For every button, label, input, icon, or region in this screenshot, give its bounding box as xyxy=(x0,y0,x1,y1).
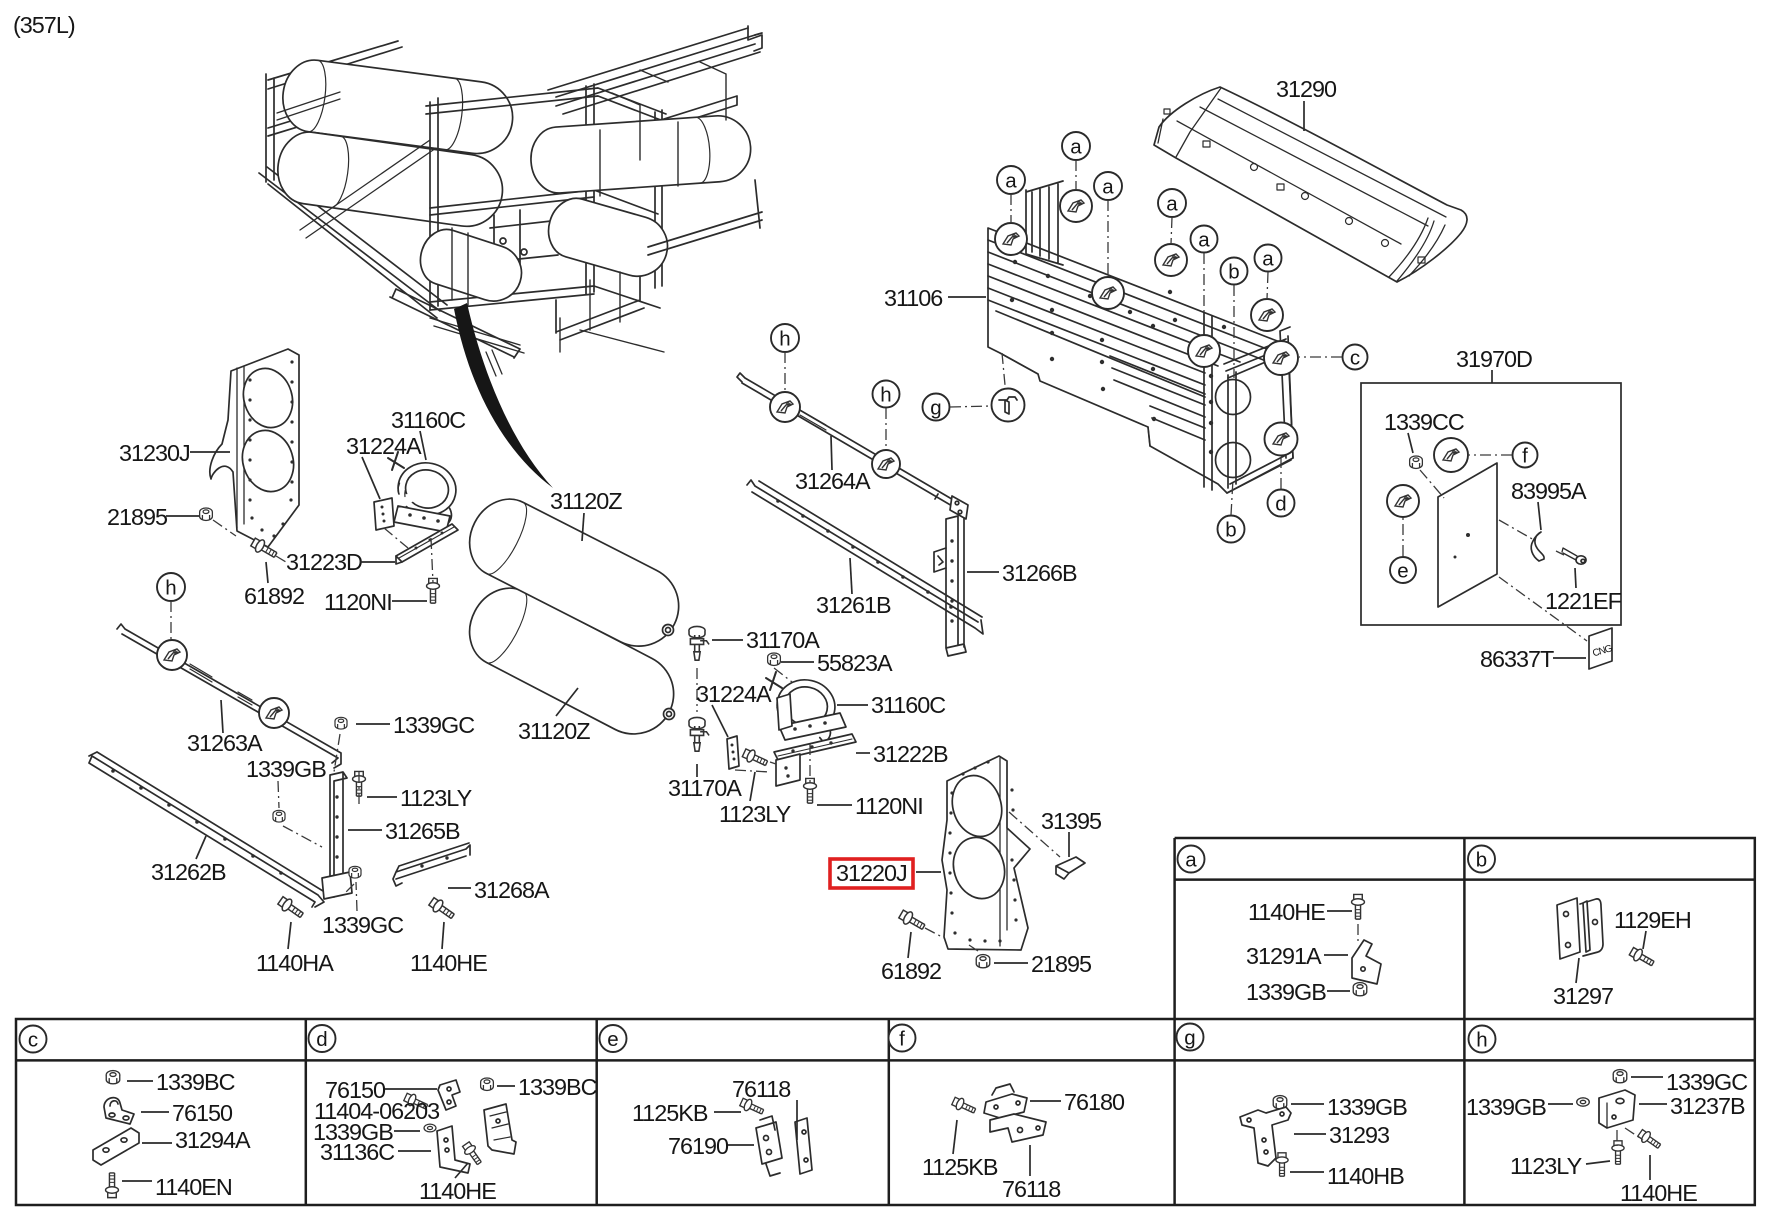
svg-text:1140HA: 1140HA xyxy=(256,950,334,976)
cell c bolt 1140EN xyxy=(106,1173,119,1198)
svg-text:h: h xyxy=(779,328,790,351)
bracket 31220J plate xyxy=(942,756,1030,950)
label 21895 lower xyxy=(994,951,1092,977)
box icon circle c xyxy=(1264,341,1298,375)
svg-text:1125KB: 1125KB xyxy=(632,1100,708,1126)
bracket 31230J holes big xyxy=(236,362,299,433)
nut 21895 lower xyxy=(976,955,990,968)
svg-text:h: h xyxy=(1476,1029,1487,1052)
cell h label 1140HE xyxy=(1620,1155,1697,1206)
cell d bolt 11404 xyxy=(403,1091,429,1112)
nut 21895 upper xyxy=(200,508,213,520)
dash plate to hook to screw xyxy=(1499,520,1564,555)
label 31268A xyxy=(448,877,550,903)
letter circle b upper xyxy=(1221,258,1248,379)
cell d label 76150 xyxy=(325,1077,437,1103)
valve 31170A lower xyxy=(689,717,709,751)
dash 31220J to 31395 xyxy=(1009,812,1060,857)
label 31160C upper xyxy=(391,407,465,460)
letter circle a6 xyxy=(1255,245,1282,300)
box icon circle a5 xyxy=(1188,335,1220,367)
bolt 61892 upper xyxy=(250,536,279,561)
rail 31262B xyxy=(89,752,324,907)
box icon circle a2 xyxy=(1060,190,1092,222)
dash bolt to plate xyxy=(925,928,944,938)
svg-text:a: a xyxy=(1185,849,1197,872)
svg-text:b: b xyxy=(1225,519,1236,542)
cell d label 1339BC xyxy=(497,1074,597,1100)
svg-text:31222B: 31222B xyxy=(873,741,948,767)
label 1123LY mid xyxy=(719,772,792,827)
svg-text:31106: 31106 xyxy=(884,285,942,311)
cell f assembly 76180 xyxy=(984,1084,1046,1142)
icon circle g (bracket) xyxy=(992,389,1025,422)
cell c bracket 31294A xyxy=(93,1128,139,1165)
bracket 31220J small holes xyxy=(948,760,1017,942)
cell e part 76190 xyxy=(756,1116,812,1176)
svg-text:1339GB: 1339GB xyxy=(246,756,326,782)
svg-text:31170A: 31170A xyxy=(668,775,742,801)
header circle e xyxy=(600,1025,627,1052)
svg-text:f: f xyxy=(899,1028,905,1051)
svg-text:b: b xyxy=(1228,261,1239,284)
cell d nut 1339BC xyxy=(481,1078,494,1090)
CNG plate 86337T xyxy=(1589,628,1614,669)
svg-text:1140HE: 1140HE xyxy=(410,950,487,976)
cell h dashes xyxy=(1617,1128,1643,1146)
box end panel circles xyxy=(1216,380,1251,415)
rail 31266B side tab xyxy=(934,548,946,572)
svg-text:31120Z: 31120Z xyxy=(550,488,622,514)
label 31290 xyxy=(1276,76,1337,131)
frame rail left top xyxy=(266,41,402,182)
label 31120Z upper xyxy=(550,488,622,541)
cover ridge lines xyxy=(1158,88,1446,244)
bolt 1123LY mid xyxy=(741,747,769,769)
letter circle a2 xyxy=(1062,132,1090,190)
svg-text:31293: 31293 xyxy=(1329,1122,1389,1148)
header circle g xyxy=(1177,1024,1204,1051)
bolt 1123LY left xyxy=(353,771,366,796)
plate 31224A upper xyxy=(374,498,394,530)
label 31265B xyxy=(348,818,460,844)
label 31223D xyxy=(286,549,395,575)
svg-text:d: d xyxy=(316,1028,327,1051)
chassis left diagonal brace xyxy=(300,140,436,238)
cell b label 1129EH xyxy=(1614,907,1691,949)
svg-text:21895: 21895 xyxy=(1031,951,1092,977)
svg-text:31291A: 31291A xyxy=(1246,943,1322,969)
frame cross rail long left-bottom xyxy=(259,167,447,318)
letter circle c xyxy=(1299,345,1368,370)
label 61892 lower xyxy=(881,932,941,984)
header circle f xyxy=(889,1025,916,1052)
tank 31120Z lower xyxy=(456,576,687,748)
svg-text:(357L): (357L) xyxy=(13,12,75,38)
cell d washer 1339GB xyxy=(424,1124,436,1132)
frame rail left mid xyxy=(268,99,366,136)
cover right end arch xyxy=(1389,218,1445,281)
svg-text:31266B: 31266B xyxy=(1002,560,1077,586)
cell c label 1140EN xyxy=(122,1174,232,1200)
svg-text:31970D: 31970D xyxy=(1456,346,1532,372)
clamp side plate mid xyxy=(777,694,792,730)
plate 31224A mid xyxy=(727,736,739,769)
svg-text:31297: 31297 xyxy=(1553,983,1613,1009)
cell b label 31297 xyxy=(1553,958,1613,1009)
label 31222B xyxy=(856,741,948,767)
svg-text:1123LY: 1123LY xyxy=(400,785,473,811)
letter circle f xyxy=(1469,443,1538,468)
rail 31263A xyxy=(117,624,341,768)
bolt 1120NI mid xyxy=(804,778,817,803)
header circle h xyxy=(1469,1026,1496,1053)
letter circle h right1 xyxy=(771,324,799,392)
svg-text:31120Z: 31120Z xyxy=(518,718,590,744)
cell a nut 1339GB xyxy=(1353,983,1367,996)
letter circle h left xyxy=(157,573,185,640)
label 21895 upper xyxy=(107,504,199,530)
label 1120NI upper xyxy=(324,589,427,615)
cell a bolt 1140HE xyxy=(1352,894,1365,919)
cell f label 76118 xyxy=(1002,1145,1060,1202)
svg-text:31261B: 31261B xyxy=(816,592,891,618)
chassis small fittings xyxy=(486,350,502,376)
cell c label 1339BC xyxy=(127,1069,235,1095)
label 31224A upper xyxy=(346,433,422,499)
cell h label 1339GB xyxy=(1466,1094,1573,1120)
box icon circle a6 xyxy=(1251,299,1283,331)
cell b hinge 31297 xyxy=(1557,898,1603,959)
cell d latch part xyxy=(484,1104,516,1154)
bracket 31230J plate xyxy=(210,349,299,547)
svg-text:1140HE: 1140HE xyxy=(419,1178,496,1204)
label 1339GC upper xyxy=(356,712,474,738)
label 31264A xyxy=(795,436,871,494)
header circle a xyxy=(1178,846,1205,873)
bolt 1140HA xyxy=(277,895,306,921)
cell d L-bracket 31136C xyxy=(437,1126,470,1173)
svg-text:31160C: 31160C xyxy=(871,692,945,718)
svg-text:31223D: 31223D xyxy=(286,549,362,575)
svg-text:31170A: 31170A xyxy=(746,627,820,653)
svg-text:c: c xyxy=(28,1029,38,1052)
svg-text:76180: 76180 xyxy=(1064,1089,1125,1115)
svg-text:76118: 76118 xyxy=(1002,1176,1060,1202)
frame rail second right xyxy=(572,96,737,157)
svg-text:1339GB: 1339GB xyxy=(1466,1094,1546,1120)
label 31970D xyxy=(1456,346,1532,383)
svg-text:31224A: 31224A xyxy=(696,681,772,707)
svg-text:1221EF: 1221EF xyxy=(1545,588,1622,614)
cell g label 1140HB xyxy=(1290,1163,1404,1189)
cell g bracket 31293 xyxy=(1240,1107,1291,1166)
label 31262B xyxy=(151,836,226,885)
svg-text:83995A: 83995A xyxy=(1511,478,1587,504)
strip 31223D xyxy=(396,524,458,562)
letter circle g xyxy=(923,353,1006,421)
box bolt dots xyxy=(1010,260,1226,454)
tank mid-right on chassis xyxy=(542,192,675,283)
svg-text:31220J: 31220J xyxy=(836,860,907,886)
label 86337T xyxy=(1480,646,1586,672)
label 31266B xyxy=(967,560,1077,586)
rail icon circle h2 xyxy=(872,450,900,478)
svg-text:1140HE: 1140HE xyxy=(1248,899,1325,925)
header circle c xyxy=(20,1026,47,1053)
tank right on chassis xyxy=(529,114,753,195)
cell h label 1339GC xyxy=(1631,1069,1747,1095)
letter circle a5 xyxy=(1191,226,1218,336)
svg-text:1339GB: 1339GB xyxy=(1246,979,1326,1005)
svg-text:1129EH: 1129EH xyxy=(1614,907,1691,933)
tank lower-left on chassis xyxy=(273,128,507,231)
label 31230J xyxy=(119,440,230,466)
cell h label 1123LY xyxy=(1510,1153,1610,1179)
svg-text:1140HB: 1140HB xyxy=(1327,1163,1404,1189)
cell d bracket 76150 xyxy=(438,1080,460,1110)
tank 31120 upper-left on chassis xyxy=(279,56,517,158)
dash nut to plate xyxy=(1420,470,1444,498)
svg-text:a: a xyxy=(1005,170,1017,193)
svg-text:a: a xyxy=(1166,193,1178,216)
label 1221EF xyxy=(1545,568,1622,614)
box icon circle d xyxy=(1265,423,1298,456)
icon circle e-part xyxy=(1387,485,1419,517)
screw 1221EF xyxy=(1562,548,1586,564)
svg-text:1123LY: 1123LY xyxy=(719,801,792,827)
letter circle d xyxy=(1268,456,1295,517)
cell b bolt 1129EH xyxy=(1628,946,1656,970)
cell g nut 1339GB xyxy=(1273,1096,1287,1109)
rail icon circle hL1 xyxy=(157,640,187,670)
icon circle f-part xyxy=(1434,438,1468,472)
svg-text:55823A: 55823A xyxy=(817,650,893,676)
bracket 31395 xyxy=(1056,857,1085,879)
clamp bracket plate upper xyxy=(394,506,450,532)
cover body xyxy=(1154,87,1467,282)
tank 31120Z upper nozzle xyxy=(663,625,674,636)
cell a bracket 31291A xyxy=(1352,940,1381,984)
cell d label 1140HE xyxy=(419,1163,496,1204)
tank 31120Z upper xyxy=(457,487,693,660)
svg-text:31262B: 31262B xyxy=(151,859,226,885)
rail 31268A xyxy=(393,843,470,886)
svg-text:1125KB: 1125KB xyxy=(922,1154,998,1180)
letter circle e xyxy=(1390,518,1416,583)
box end panel xyxy=(1204,313,1236,490)
cell h washer 1339GB xyxy=(1577,1098,1590,1106)
svg-text:1339CC: 1339CC xyxy=(1384,409,1464,435)
clamp band 31160C upper xyxy=(385,456,461,526)
svg-text:f: f xyxy=(1522,445,1528,468)
svg-text:e: e xyxy=(607,1028,618,1051)
svg-text:61892: 61892 xyxy=(244,583,304,609)
svg-text:1339GB: 1339GB xyxy=(1327,1094,1407,1120)
box icon circle a4 xyxy=(1155,244,1187,276)
svg-text:31395: 31395 xyxy=(1041,808,1102,834)
svg-text:21895: 21895 xyxy=(107,504,168,530)
svg-text:1339BC: 1339BC xyxy=(518,1074,597,1100)
header circle d xyxy=(309,1025,336,1052)
cell h label 31237B xyxy=(1639,1093,1745,1119)
box icon circle a3 xyxy=(1092,277,1124,309)
box front wall edge xyxy=(1000,353,1150,446)
label 1339GC lower xyxy=(322,882,403,938)
label 31106 xyxy=(884,285,986,311)
svg-text:31290: 31290 xyxy=(1276,76,1337,102)
cell g label 1339GB xyxy=(1291,1094,1407,1120)
swoosh pointer xyxy=(454,303,553,488)
cell c nut 1339BC xyxy=(106,1071,120,1084)
label 31395 xyxy=(1041,808,1102,857)
svg-text:31263A: 31263A xyxy=(187,730,263,756)
valve 31170A upper xyxy=(689,626,709,660)
post 31265B xyxy=(330,772,347,897)
letter circle a3 xyxy=(1094,172,1122,277)
svg-text:61892: 61892 xyxy=(881,958,941,984)
detail box frame xyxy=(1361,383,1621,625)
bar 31222B xyxy=(774,734,856,760)
label 31220J red box xyxy=(830,859,941,888)
label 83995A xyxy=(1511,478,1587,530)
bracket 31220J holes big xyxy=(945,769,1009,842)
svg-text:1120NI: 1120NI xyxy=(855,793,923,819)
cell a label 1339GB xyxy=(1246,979,1350,1005)
frame I-beam top right xyxy=(548,26,762,114)
nut 1339GB left xyxy=(273,810,285,822)
dash plate to CNG plate xyxy=(1499,577,1587,641)
bracket 31230J small holes xyxy=(248,360,293,537)
label 1140HE left xyxy=(410,922,487,976)
svg-text:76118: 76118 xyxy=(732,1076,790,1102)
cell d label 1339GB xyxy=(313,1119,420,1145)
svg-text:1339BC: 1339BC xyxy=(156,1069,235,1095)
svg-text:1120NI: 1120NI xyxy=(324,589,392,615)
nut 1339CC xyxy=(1410,456,1423,468)
cell e bolt 1125KB xyxy=(739,1096,765,1117)
svg-text:31268A: 31268A xyxy=(474,877,550,903)
svg-text:a: a xyxy=(1262,248,1274,271)
bolt 1140HE left xyxy=(428,896,457,922)
svg-text:b: b xyxy=(1476,849,1487,872)
svg-text:h: h xyxy=(165,577,176,600)
box slats xyxy=(988,240,1272,440)
cell h bolt 1123LY xyxy=(1612,1141,1624,1164)
letter circle a1 xyxy=(997,166,1025,223)
cell c label 31294A xyxy=(142,1127,251,1153)
cell a label 31291A xyxy=(1246,943,1348,969)
chassis extra cross members right xyxy=(612,62,726,160)
dash connectors mid assembly xyxy=(697,668,810,782)
svg-text:d: d xyxy=(1275,493,1286,516)
label 1120NI mid xyxy=(817,793,923,819)
cell c label 76150 xyxy=(141,1100,233,1126)
svg-text:31264A: 31264A xyxy=(795,468,871,494)
cell c shackle 76150 xyxy=(104,1098,134,1124)
svg-text:a: a xyxy=(1198,229,1210,252)
label 1140HA xyxy=(256,922,334,976)
label 31170A lower xyxy=(668,764,742,801)
nut 55823A xyxy=(768,653,781,665)
hook 83995A xyxy=(1531,532,1544,561)
svg-text:1140HE: 1140HE xyxy=(1620,1180,1697,1206)
cell h nut 1339GC xyxy=(1613,1070,1627,1083)
chassis saddle straps lower tanks xyxy=(430,228,524,353)
tank 31120Z lower nozzle xyxy=(664,709,675,720)
label 31224A mid xyxy=(696,681,772,737)
tank centre-low on chassis xyxy=(413,223,528,308)
nut 1339GC lower xyxy=(349,866,361,878)
label 1123LY left xyxy=(367,785,473,811)
svg-text:1123LY: 1123LY xyxy=(1510,1153,1583,1179)
letter circle a4 xyxy=(1158,189,1186,244)
svg-text:31160C: 31160C xyxy=(391,407,465,433)
dashes left rails xyxy=(283,734,359,894)
bolt 1120NI upper xyxy=(427,578,440,603)
svg-text:31237B: 31237B xyxy=(1670,1093,1745,1119)
box icon circle a1 xyxy=(995,223,1027,255)
cage centre frame xyxy=(426,84,666,310)
cell g label 31293 xyxy=(1294,1122,1389,1148)
clamp band 31160C mid xyxy=(764,673,840,743)
cell e label 1125KB xyxy=(632,1100,741,1126)
svg-text:31230J: 31230J xyxy=(119,440,190,466)
label 31261B xyxy=(816,558,891,618)
svg-text:1339GC: 1339GC xyxy=(1666,1069,1747,1095)
cell f label 76180 xyxy=(1030,1089,1125,1115)
svg-text:31224A: 31224A xyxy=(346,433,422,459)
box outline xyxy=(988,228,1293,493)
rail 31264A xyxy=(737,373,962,510)
label 31160C mid xyxy=(837,692,945,718)
cell f label 1125KB xyxy=(922,1120,998,1180)
cover holes xyxy=(1164,109,1425,263)
label 31263A xyxy=(187,700,263,756)
svg-text:h: h xyxy=(880,384,891,407)
box end brace xyxy=(1227,455,1291,493)
cell h bolt 1140HE xyxy=(1637,1128,1663,1151)
label 1339GB left xyxy=(246,756,326,808)
cell h bracket 31237B xyxy=(1599,1090,1635,1128)
svg-text:e: e xyxy=(1397,560,1408,583)
label 61892 upper xyxy=(244,562,304,609)
X-bolt mark upper xyxy=(388,452,404,470)
svg-text:76150: 76150 xyxy=(172,1100,233,1126)
nut 1339GC upper xyxy=(335,717,347,729)
box gate top-left xyxy=(1026,181,1063,265)
svg-text:1339GC: 1339GC xyxy=(393,712,474,738)
svg-text:86337T: 86337T xyxy=(1480,646,1554,672)
clamp bracket plate mid xyxy=(779,713,846,740)
rail 31261B xyxy=(747,480,983,634)
svg-text:a: a xyxy=(1070,136,1082,159)
cell e label 76118 xyxy=(732,1076,797,1140)
svg-text:31294A: 31294A xyxy=(175,1127,251,1153)
label 31120Z lower xyxy=(518,688,590,744)
box corner post xyxy=(1224,327,1293,458)
letter circle b lower xyxy=(1218,479,1245,543)
label 1339CC xyxy=(1384,409,1464,453)
cell e label 76190 xyxy=(668,1133,754,1159)
label 31170A top xyxy=(712,627,820,653)
frame bottom centre channel xyxy=(390,289,520,358)
table row c-h outline xyxy=(16,1019,1755,1205)
rail 31266B vertical xyxy=(946,516,966,656)
cell d label 31136C xyxy=(320,1139,431,1165)
svg-text:g: g xyxy=(1184,1027,1195,1050)
svg-text:g: g xyxy=(930,397,941,420)
